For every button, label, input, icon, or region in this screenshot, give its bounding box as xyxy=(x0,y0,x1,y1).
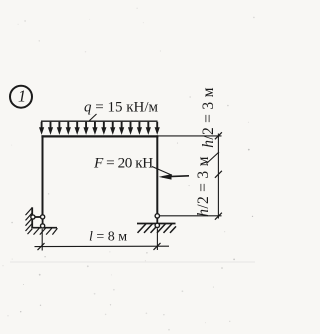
right column xyxy=(156,135,158,213)
svg-text:h/2 = 3 м: h/2 = 3 м xyxy=(195,156,212,216)
extension line from right support down to span dimension xyxy=(156,228,158,250)
faint scan streak xyxy=(10,261,255,263)
leader line from q label xyxy=(89,114,97,122)
extension line from beam to height dimension xyxy=(158,135,221,137)
scheme number circle 1 xyxy=(10,86,32,108)
force F arrow (pointing left at right column) xyxy=(159,174,189,180)
svg-text:l = 8 м: l = 8 м xyxy=(89,229,127,244)
left support ground line xyxy=(31,227,57,229)
frame beam (top chord) xyxy=(41,135,158,137)
leader line from F label to force arrow xyxy=(152,167,172,176)
extension line from left support down to span dimension xyxy=(41,229,43,251)
left support upper column hinge circle xyxy=(41,215,45,219)
right support link between hinges xyxy=(156,218,158,223)
height dimension line xyxy=(217,134,219,219)
right support upper hinge circle xyxy=(155,214,159,218)
distributed load q arrow stems xyxy=(42,122,158,129)
right support lower hinge circle xyxy=(155,223,159,227)
span dimension right tick xyxy=(154,243,161,250)
leader between the two height labels xyxy=(207,152,220,164)
left support wall hatching xyxy=(26,208,33,235)
span dimension line l xyxy=(35,245,170,247)
left column xyxy=(42,135,44,215)
height dimension top tick xyxy=(215,132,222,139)
left support: wall line xyxy=(31,207,33,228)
right support ground hatching xyxy=(138,224,177,233)
svg-text:1: 1 xyxy=(18,87,26,106)
distributed load q top line xyxy=(41,120,158,122)
svg-text:F = 20 кН: F = 20 кН xyxy=(93,155,153,172)
height dimension bottom tick xyxy=(215,213,222,220)
extension line from right support to height dimension xyxy=(160,215,222,217)
left support wall hinge circle xyxy=(31,215,35,219)
left support ground hatching xyxy=(34,228,58,235)
left support link between hinges xyxy=(42,219,44,225)
span dimension left tick xyxy=(38,243,45,250)
right support ground line xyxy=(137,223,176,225)
svg-text:h/2 = 3 м: h/2 = 3 м xyxy=(200,87,217,147)
svg-text:q = 15 кН/м: q = 15 кН/м xyxy=(84,99,158,115)
distributed load q arrowheads xyxy=(39,127,160,135)
height dimension middle tick xyxy=(215,171,222,178)
left support lower hinge circle xyxy=(41,224,45,228)
left support horizontal link bar xyxy=(33,216,42,218)
scan noise speckles xyxy=(3,8,255,331)
